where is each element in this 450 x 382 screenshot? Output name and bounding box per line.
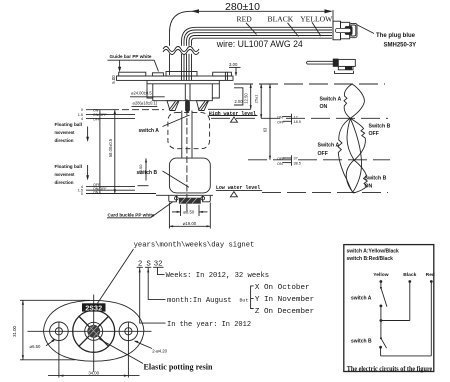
svg-text:RED: RED (237, 14, 253, 23)
svg-text:wire: UL1007 AWG 24: wire: UL1007 AWG 24 (216, 39, 303, 49)
svg-text:switch A:Yellow/Black: switch A:Yellow/Black (347, 249, 400, 255)
switch B action ticks 37/38.5 (283, 157, 292, 159)
svg-text:2.00: 2.00 (235, 99, 244, 104)
dimension 280±10 arrows (325, 9, 333, 13)
buckle hatched center (179, 198, 201, 204)
brace switch A OFF (338, 118, 362, 192)
svg-text:5.00: 5.00 (111, 75, 116, 84)
svg-text:month:In August: month:In August (167, 297, 232, 305)
svg-text:⌀19.00: ⌀19.00 (183, 221, 197, 226)
leader switch B (163, 171, 189, 187)
plug pin slot (335, 28, 350, 32)
funnel right (197, 101, 209, 111)
svg-text:Elastic potting resin: Elastic potting resin (144, 363, 214, 372)
cup inner walls (152, 84, 154, 98)
svg-text:Switch A: Switch A (320, 97, 342, 103)
movement arrow 1 (87, 127, 89, 140)
black wire horizontal join (381, 320, 410, 322)
wire red (182, 27, 333, 80)
svg-text:SMH250-3Y: SMH250-3Y (384, 43, 417, 49)
wheel rim (73, 310, 115, 352)
leader RED wire (246, 23, 257, 35)
svg-text:ON: ON (277, 116, 283, 120)
svg-text:movement: movement (55, 172, 75, 177)
svg-text:3.00: 3.00 (229, 62, 238, 67)
buckle left ear (169, 196, 177, 202)
left group bottom line 0 (86, 193, 156, 195)
plug head inner (351, 25, 356, 36)
svg-text:Yellow: Yellow (373, 272, 388, 278)
cup top line (147, 83, 219, 85)
switch A contact dot (380, 305, 383, 308)
dim 10.00 float B (145, 158, 147, 180)
spare terminal pin (307, 61, 334, 64)
svg-text:Weeks: In 2012, 32 weeks: Weeks: In 2012, 32 weeks (166, 272, 270, 280)
left group top line 4 (86, 117, 135, 119)
plug body (341, 22, 350, 39)
svg-text:2-⌀4.20: 2-⌀4.20 (152, 348, 167, 353)
svg-text:direction: direction (55, 138, 74, 143)
svg-text:movement: movement (55, 130, 75, 135)
plate tab center (cable gland) (166, 72, 197, 77)
cable break symbol (163, 46, 199, 54)
svg-text:ON: ON (93, 108, 99, 112)
svg-text:17: 17 (294, 115, 298, 119)
svg-text:4: 4 (81, 117, 83, 121)
leader switch A (163, 115, 190, 127)
svg-text:Guide bar PP white: Guide bar PP white (110, 54, 152, 60)
svg-text:31.00: 31.00 (12, 326, 17, 337)
red wire terminal dot (430, 280, 433, 283)
movement arrow 2 (87, 165, 89, 178)
svg-text:OFF: OFF (277, 120, 285, 124)
funnel bottom reference line (208, 108, 251, 110)
wheel spokes (79, 317, 108, 347)
hub ring (85, 322, 103, 340)
svg-text:The electric circuits of the f: The electric circuits of the figure (347, 365, 433, 373)
svg-text:In the year: In 2012: In the year: In 2012 (167, 321, 251, 329)
flange horizontal centerline (28, 330, 152, 332)
svg-text:switch A: switch A (139, 128, 160, 134)
dim 31.00 (22, 300, 24, 360)
svg-text:But: But (240, 298, 249, 304)
svg-text:Y In November: Y In November (255, 296, 314, 304)
plate slot lines (224, 72, 226, 80)
svg-text:OFF: OFF (277, 157, 285, 161)
float A (dashed) (168, 113, 210, 149)
spare terminal latch dark (345, 66, 352, 70)
svg-text:10.00: 10.00 (138, 164, 143, 175)
svg-text:2S32: 2S32 (85, 305, 102, 313)
code underlines (137, 266, 143, 268)
weeks connector (158, 268, 165, 275)
high water triangle (231, 117, 238, 122)
month connector (148, 268, 165, 300)
svg-text:⌀24.00±0.5: ⌀24.00±0.5 (131, 91, 152, 96)
dim 2.00 bracket (234, 88, 243, 105)
left group bottom line 4 (86, 186, 135, 188)
switch B contact dot (379, 346, 382, 349)
wire to switch B (380, 321, 382, 339)
svg-text:ON: ON (93, 190, 99, 194)
cable tube in cup (184, 84, 186, 101)
plug head (350, 23, 357, 37)
cable end capsule (185, 100, 190, 112)
svg-text:switch B:Red/Black: switch B:Red/Black (347, 256, 394, 262)
circuit box border (344, 245, 434, 372)
plug rear flange (333, 21, 341, 40)
wire yellow (192, 38, 333, 80)
center axis (186, 99, 188, 212)
svg-text:switch A: switch A (351, 296, 372, 302)
svg-text:ON: ON (320, 104, 328, 110)
tube right wall (191, 111, 193, 159)
dim 63 vertical (269, 84, 271, 160)
float B (169, 158, 210, 193)
brace switch B OFF (347, 118, 365, 160)
buckle right ear (203, 196, 211, 202)
dim 12.50 vertical (250, 84, 252, 109)
wire 2 (184, 30, 332, 80)
left group bottom line 1.5 (86, 189, 135, 191)
dim Ø8.50 (180, 205, 182, 216)
tube left wall (181, 111, 183, 159)
spare terminal step (338, 66, 353, 69)
left group top line 1.5 (86, 113, 135, 115)
svg-text:OFF: OFF (318, 151, 328, 157)
plug socket dark (345, 26, 353, 35)
svg-text:Switch B: Switch B (369, 124, 391, 130)
wire below switch B (380, 347, 382, 356)
svg-text:Black: Black (403, 272, 416, 278)
svg-text:X On October: X On October (255, 284, 310, 292)
svg-text:280±10: 280±10 (225, 1, 260, 13)
switch A blade (381, 288, 387, 307)
plate tab right (213, 72, 232, 76)
svg-text:0: 0 (81, 192, 83, 196)
svg-text:BLACK: BLACK (268, 14, 294, 23)
svg-text:The plug blue: The plug blue (376, 33, 416, 39)
black wire terminal dot (408, 280, 411, 283)
svg-text:58.00±0.5: 58.00±0.5 (108, 138, 113, 157)
svg-text:⌀28(⌀18±0.1): ⌀28(⌀18±0.1) (133, 100, 158, 105)
vertical witness line (99, 110, 101, 194)
guide bar arrow (119, 60, 121, 70)
top limit dashed line (234, 83, 385, 85)
dim Ø19.00 (168, 203, 170, 229)
svg-text:years\month\weeks\day signet: years\month\weeks\day signet (134, 241, 255, 249)
flange outline (44, 300, 144, 361)
svg-text:18.5: 18.5 (294, 120, 301, 124)
svg-text:Red: Red (426, 272, 435, 278)
card buckle leader (151, 202, 173, 218)
svg-text:25±1: 25±1 (254, 95, 259, 104)
svg-text:Floating ball: Floating ball (55, 164, 83, 169)
switch A pivot dot (380, 287, 382, 289)
left group top line 0 (86, 109, 112, 111)
guide bar label underline (108, 59, 155, 61)
svg-text:ON: ON (277, 162, 283, 166)
svg-text:Switch A: Switch A (318, 143, 340, 149)
year connector (140, 268, 166, 324)
plate tab left (guide bar) (119, 72, 146, 76)
bottom wire horizontal (381, 355, 432, 357)
hub hatched (87, 325, 100, 338)
spare terminal body (338, 59, 355, 66)
XYZ brace (251, 286, 254, 309)
dim 34.00 (58, 323, 60, 378)
svg-text:0: 0 (81, 108, 83, 112)
brace switch B ON (346, 160, 367, 193)
low water triangle (230, 192, 237, 197)
svg-text:⌀6.50: ⌀6.50 (30, 344, 42, 349)
svg-text:YELLOW: YELLOW (300, 14, 333, 23)
yellow wire upper segment (380, 282, 382, 288)
signet leader to stamp (98, 249, 134, 303)
flange vertical centerline (93, 295, 95, 373)
wire 4 (189, 36, 332, 81)
buckle pin right (201, 197, 205, 201)
mounting plate (117, 76, 234, 80)
svg-text:switch B: switch B (351, 339, 372, 345)
funnel left (167, 101, 179, 111)
svg-text:OFF: OFF (369, 131, 379, 137)
leader plug (357, 25, 375, 34)
svg-text:37: 37 (294, 157, 298, 161)
switch B action line (248, 159, 390, 161)
black wire vertical (409, 282, 411, 321)
svg-text:ON: ON (365, 184, 373, 190)
cable outer sheath line (170, 11, 332, 75)
yellow wire terminal dot (380, 280, 383, 283)
svg-text:direction: direction (55, 180, 74, 185)
buckle top line (156, 194, 213, 196)
spare terminal base (335, 71, 354, 74)
yellow wire lower segment (380, 306, 382, 321)
svg-text:12.50: 12.50 (243, 93, 248, 104)
guide bar leader diagonal (154, 60, 158, 71)
ear right outer (119, 322, 138, 341)
high water level line (211, 117, 388, 119)
dim 25±1 vertical (260, 84, 262, 118)
junction dot (380, 319, 383, 322)
switch B pivot dot (380, 337, 382, 339)
hole right (125, 328, 132, 335)
vertical dim 58.00±0.5 (114, 110, 116, 194)
spare terminal crimp (333, 59, 339, 67)
ear left outer (50, 322, 69, 341)
hole left (55, 328, 62, 335)
svg-text:Switch B: Switch B (365, 176, 387, 182)
svg-text:⌀8.50: ⌀8.50 (183, 209, 195, 214)
svg-text:34.00: 34.00 (88, 370, 99, 375)
elastic resin leader (99, 339, 144, 364)
leader BLACK wire (288, 23, 299, 37)
svg-text:63: 63 (262, 127, 267, 132)
date stamp (82, 303, 106, 311)
leader YELLOW wire (312, 22, 321, 36)
potting cup outline (147, 80, 219, 100)
plug rear edge (332, 10, 334, 40)
low water level line (262, 191, 388, 193)
svg-text:38.5: 38.5 (294, 162, 301, 166)
red wire vertical (430, 282, 432, 356)
switch A action ticks 17/18.5 (283, 116, 292, 118)
plate tab small (152, 73, 163, 76)
svg-text:Z On December: Z On December (255, 308, 314, 316)
buckle pin left (175, 197, 179, 201)
svg-text:Floating ball: Floating ball (55, 122, 83, 127)
wire black (187, 33, 333, 80)
switch B blade (381, 338, 387, 348)
brace switch A ON (344, 84, 364, 118)
